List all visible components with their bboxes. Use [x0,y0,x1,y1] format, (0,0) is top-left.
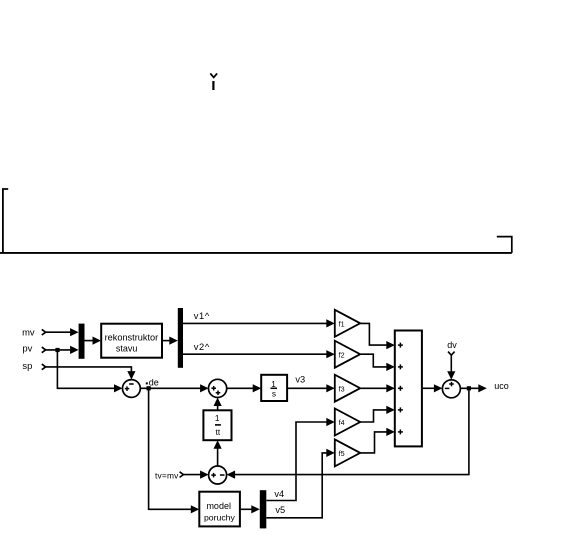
wire sum S3 to 1/tt [214,440,222,466]
label v4 [274,489,284,499]
sum S1 [122,380,140,398]
port tv=mv [155,471,183,481]
wire rekonstruktor to demux D1 [162,337,178,345]
wire de branch to model poruchy [149,388,200,513]
wire sp to sum S1 top [46,367,136,380]
label v3 [295,374,305,384]
svg-text:v1^: v1^ [194,311,210,321]
wire sum S4 to uco [460,384,486,392]
svg-text:f4: f4 [339,418,345,427]
svg-text:f2: f2 [339,350,345,359]
svg-text:v2^: v2^ [194,342,210,352]
svg-text:f1: f1 [339,319,345,328]
port sp [22,360,45,371]
wire v4 to gain f4 [266,418,335,501]
wire f1 to sum block [360,323,395,349]
sum S3 [209,466,227,484]
sum S4 [442,380,460,398]
block integrator 1/s [261,375,287,401]
svg-text:s: s [272,389,276,399]
wire tv=mv to sum S3 [183,471,208,479]
svg-text:model: model [206,501,231,511]
wire mv to mux M1 [46,328,79,336]
port dv [447,340,457,355]
wire sum S1 to sum S2 [140,384,208,392]
wire feedback to sum S3 [227,388,469,478]
svg-text:v4: v4 [274,489,284,499]
frame bottom line [0,252,512,254]
wire pv to mux M1 [46,346,79,354]
wire sum block to sum S4 [422,384,443,392]
label uco [494,381,509,391]
svg-text:poruchy: poruchy [204,513,236,523]
gain f5 [335,439,360,466]
svg-text:sp: sp [22,360,32,371]
wire f3 to sum block [360,384,395,392]
svg-text:1: 1 [215,413,220,423]
mux M1 [79,324,85,359]
svg-text:stavu: stavu [116,343,138,353]
junction pv branch [55,348,59,352]
wire v3 to gain f3 [287,384,335,392]
svg-text:v5: v5 [275,505,285,515]
demux D1 [178,308,183,368]
svg-text:tt: tt [216,427,221,437]
junction de [147,386,151,390]
wire f5 to sum block [360,428,395,453]
label de [146,377,159,387]
svg-text:de: de [149,377,159,387]
sum S2 [209,379,227,397]
svg-text:v3: v3 [295,374,305,384]
svg-text:tv=mv: tv=mv [155,471,179,481]
label v5 [275,505,285,515]
wire mux M1 to rekonstruktor [85,337,102,345]
mux M2 [260,490,267,528]
wire f4 to sum block [360,406,395,422]
label v1^ [194,311,210,321]
svg-text:pv: pv [22,343,32,354]
frame right hook [497,237,512,253]
svg-text:dv: dv [447,340,457,350]
gain f3 [335,375,360,402]
svg-text:mv: mv [22,326,35,337]
gain f1 [335,310,360,337]
wire v1^ to gain f1 [183,319,335,327]
wire model poruchy to mux M2 [240,505,260,513]
port mv [22,326,45,337]
wire dv to sum S4 [447,355,455,380]
wire f2 to sum block [360,354,395,371]
wire v2^ to gain f2 [183,350,335,358]
svg-text:f5: f5 [339,449,345,458]
port pv [22,343,45,354]
svg-text:rekonstruktor: rekonstruktor [105,332,159,342]
glyph i-caron (title fragment) [210,73,217,90]
wire v5 to gain f5 [266,449,335,518]
block 1/tt [203,410,231,440]
block sum rectangle [395,331,422,447]
svg-text:uco: uco [494,381,509,391]
label v2^ [194,342,210,352]
block model poruchy [199,492,240,527]
frame left bracket [3,189,8,253]
gain f2 [335,341,360,368]
wire pv branch to sum S1 [57,350,122,392]
junction feedback [467,386,471,390]
svg-text:f3: f3 [339,384,345,393]
wire sum S2 to integrator 1/s [227,384,262,392]
gain f4 [335,409,360,436]
wire 1/tt to sum S2 [214,398,222,411]
block rekonstruktor stavu [101,324,162,358]
